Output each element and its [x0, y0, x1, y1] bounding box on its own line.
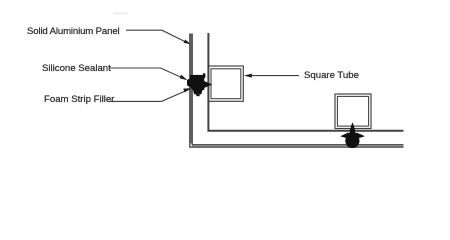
svg-text:Silicone Sealant: Silicone Sealant	[42, 63, 111, 74]
solid aluminium panel: outer face second line	[192, 34, 403, 145]
sealant blob 1: silicone sealant / foam strip at vertical joint	[187, 73, 212, 96]
arrowhead: Solid Aluminium Panel leader	[184, 40, 191, 45]
square tube upper: outer wall	[208, 66, 243, 101]
blob2 round body	[345, 134, 359, 149]
blob1 right spike into tube	[204, 81, 212, 88]
svg-text:Square Tube: Square Tube	[304, 70, 359, 81]
solid aluminium panel: inner face line (vertical + horizontal)	[208, 33, 403, 131]
sealant blob 2: anchor under lower square tube	[340, 122, 365, 148]
blob1 bottom tick	[196, 94, 199, 96]
solid aluminium panel: blur fill between outer face lines (vertical)	[190, 34, 192, 144]
arrowhead: Square Tube leader	[244, 74, 252, 78]
blob1 top-right block	[203, 73, 205, 77]
square tube upper: inner wall	[211, 69, 241, 99]
solid aluminium panel: blur fill between outer face lines (bottom horizontal)	[192, 145, 404, 147]
blob1 bottom bar	[193, 90, 203, 94]
faint smudge artifact top	[113, 12, 128, 15]
svg-text:Solid Aluminium Panel: Solid Aluminium Panel	[27, 26, 120, 37]
blob1 main body	[187, 78, 204, 91]
leader line: Silicone Sealant	[110, 68, 186, 79]
blob2 top spike	[350, 122, 356, 134]
arrowhead: Foam Strip Filler leader	[183, 88, 192, 92]
blob1 top bar	[190, 75, 205, 78]
solid aluminium panel: outer face line (outermost), vertical then bottom horizontal	[190, 34, 404, 148]
square tube lower: outer wall	[335, 94, 371, 129]
blob2 side wings	[340, 134, 365, 138]
square tube lower: inner wall	[337, 96, 368, 126]
leader line: Foam Strip Filler	[108, 89, 191, 102]
arrowhead: Silicone Sealant leader	[180, 75, 188, 81]
svg-text:Foam Strip Filler: Foam Strip Filler	[44, 94, 115, 105]
leader line: Solid Aluminium Panel	[126, 30, 189, 43]
blob2 spike collar	[350, 129, 355, 132]
leader line: Square Tube	[250, 75, 299, 77]
blob2 neck fill	[347, 133, 359, 141]
